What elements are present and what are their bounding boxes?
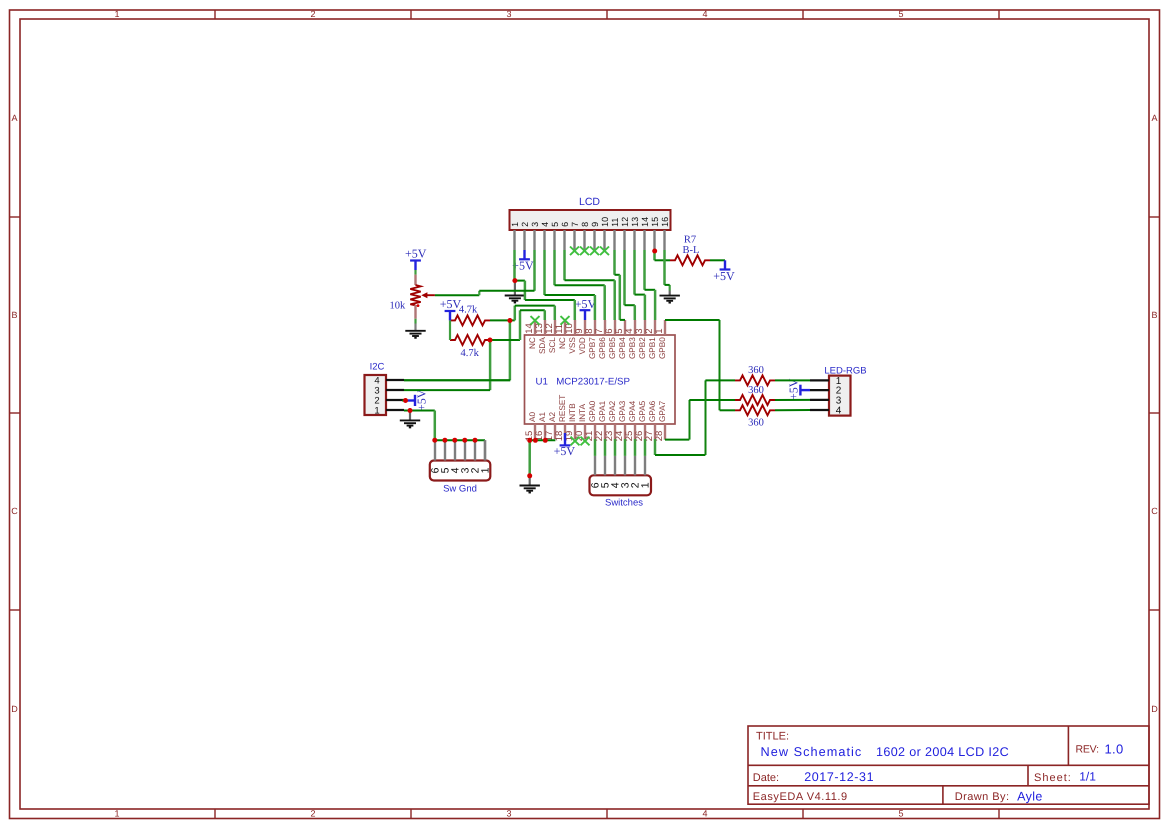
svg-text:10k: 10k — [390, 300, 407, 311]
power +5V R7 — [724, 260, 726, 269]
svg-text:B: B — [1151, 310, 1157, 320]
svg-text:GPB1: GPB1 — [648, 337, 657, 359]
svg-text:New Schematic: New Schematic — [761, 745, 863, 759]
svg-text:GPA4: GPA4 — [628, 400, 637, 422]
svg-text:C: C — [1151, 506, 1158, 516]
wire 360 bottom to LED4 — [775, 409, 810, 411]
svg-text:Switches: Switches — [605, 498, 643, 509]
power +5V U1 RESET — [564, 433, 566, 445]
svg-text:GPA7: GPA7 — [658, 400, 667, 422]
wire LCD11 to GPB4 — [613, 250, 616, 275]
title block — [748, 726, 1149, 804]
op IC U1 MCP23017-E/SP body — [525, 335, 676, 424]
svg-text:1602 or 2004 LCD I2C: 1602 or 2004 LCD I2C — [876, 745, 1009, 759]
resistor 4.7k bottom — [450, 335, 490, 345]
svg-text:+5V: +5V — [414, 389, 428, 411]
wire SDA net — [490, 339, 520, 341]
svg-text:GPA5: GPA5 — [638, 400, 647, 422]
wire LCD5 to GPB6 — [553, 250, 556, 285]
svg-text:11: 11 — [610, 218, 620, 227]
wire GPA6 to 360 top — [654, 439, 657, 455]
svg-text:+5V: +5V — [440, 297, 462, 311]
node I2C pin1 — [408, 408, 413, 413]
wire SCL net — [490, 319, 515, 321]
power +5V U1 VDD — [584, 310, 586, 320]
svg-text:C: C — [11, 506, 18, 516]
svg-text:1: 1 — [654, 329, 665, 334]
svg-text:360: 360 — [748, 417, 764, 428]
svg-text:GPB0: GPB0 — [658, 337, 667, 359]
svg-text:2: 2 — [310, 9, 315, 19]
svg-text:D: D — [11, 704, 18, 714]
svg-text:Sw Gnd: Sw Gnd — [443, 484, 477, 495]
svg-text:GPB3: GPB3 — [628, 337, 637, 359]
svg-text:GPB4: GPB4 — [618, 337, 627, 359]
svg-text:4: 4 — [540, 222, 550, 227]
U1 bottom pins — [534, 424, 536, 439]
node SDA junction — [488, 338, 493, 343]
svg-text:4.7k: 4.7k — [461, 348, 480, 359]
wire I2C pin1 gnd net — [404, 410, 435, 412]
wire LCD16 to GND — [663, 250, 666, 285]
wire I2C pin2 to +5V — [402, 400, 406, 402]
wire LCD12 to GPB3 — [623, 250, 626, 305]
resistor R7 B-L — [670, 255, 710, 265]
svg-text:U1: U1 — [536, 376, 548, 387]
node LCD15 junction — [652, 249, 657, 254]
svg-text:2: 2 — [520, 222, 530, 227]
node SCL junction — [507, 318, 512, 323]
Switches pins — [594, 456, 596, 475]
svg-text:GPA0: GPA0 — [588, 400, 597, 422]
svg-text:+5V: +5V — [575, 297, 597, 311]
power +5V 4.7k — [449, 311, 451, 320]
svg-text:RESET: RESET — [558, 395, 567, 422]
ground LCD pin16 — [669, 285, 671, 291]
resistor R 10k potentiometer — [414, 270, 416, 275]
svg-text:I2C: I2C — [370, 362, 385, 373]
svg-text:4: 4 — [836, 405, 842, 416]
svg-text:VDD: VDD — [578, 337, 587, 354]
svg-text:INTA: INTA — [578, 403, 587, 422]
Sw Gnd pins — [434, 440, 436, 460]
wire LCD3 to pot wiper — [533, 250, 536, 291]
svg-text:GPB7: GPB7 — [588, 337, 597, 359]
svg-text:1.0: 1.0 — [1105, 741, 1124, 756]
no-connect X LCD pins 7-10 — [570, 247, 579, 256]
svg-text:D: D — [1151, 704, 1158, 714]
svg-text:INTB: INTB — [568, 403, 577, 422]
svg-text:GPA3: GPA3 — [618, 400, 627, 422]
svg-text:2: 2 — [310, 809, 315, 819]
wire 360 top to LED1 — [775, 379, 810, 381]
svg-text:1: 1 — [640, 482, 652, 488]
svg-text:1: 1 — [480, 467, 492, 473]
ground U1 A0A1A2 — [529, 476, 531, 486]
U1 top pins — [534, 320, 536, 335]
wire 360 middle to LED3 — [775, 399, 810, 401]
svg-text:A0: A0 — [528, 412, 537, 422]
svg-text:B: B — [11, 310, 17, 320]
svg-text:360: 360 — [748, 385, 764, 396]
svg-text:LED-RGB: LED-RGB — [824, 366, 866, 377]
wire U1 A0A1A2 to GND — [530, 439, 556, 441]
svg-text:B-L: B-L — [683, 245, 700, 256]
svg-text:13: 13 — [630, 217, 640, 227]
svg-text:Drawn By:: Drawn By: — [955, 791, 1010, 803]
svg-text:1/1: 1/1 — [1079, 770, 1096, 784]
wire LCD15 to R7 — [653, 250, 656, 260]
svg-text:4: 4 — [702, 809, 707, 819]
pot wiper arrow — [427, 294, 435, 296]
nodes A0 A1 A2 — [527, 438, 532, 443]
svg-text:3: 3 — [506, 809, 511, 819]
power +5V pot — [414, 261, 416, 271]
svg-text:LCD: LCD — [579, 196, 600, 208]
nodes Sw Gnd row — [432, 438, 437, 443]
svg-text:A: A — [11, 113, 17, 123]
wire I2C pin3 horizontal — [404, 379, 510, 381]
svg-text:1: 1 — [114, 9, 119, 19]
svg-text:R7: R7 — [684, 235, 696, 246]
svg-text:5: 5 — [898, 809, 903, 819]
connector LED-RGB (4-pin) — [829, 376, 851, 416]
connector Switches (6-pin) — [590, 475, 652, 495]
svg-text:10: 10 — [600, 217, 610, 227]
wire LCD1 to GND and VSS — [513, 250, 516, 281]
svg-text:SDA: SDA — [538, 337, 547, 354]
svg-text:14: 14 — [640, 217, 650, 227]
wire LCD4 to GPB7 — [543, 250, 546, 295]
svg-text:REV:: REV: — [1076, 743, 1099, 755]
svg-text:GPB6: GPB6 — [598, 337, 607, 359]
svg-text:+5V: +5V — [554, 444, 576, 458]
connector LCD (16-pin header) — [510, 210, 671, 230]
wire GPB0 to 360 bottom — [665, 319, 720, 321]
no-connect X U1 pin20 — [581, 437, 590, 446]
I2C pins — [386, 379, 404, 381]
svg-text:GPB5: GPB5 — [608, 337, 617, 359]
svg-text:12: 12 — [620, 217, 630, 227]
power +5V I2C pin2 — [406, 399, 416, 401]
resistor 360 top — [735, 375, 775, 385]
svg-text:Sheet:: Sheet: — [1034, 772, 1072, 784]
svg-text:3: 3 — [530, 222, 540, 227]
svg-text:9: 9 — [590, 222, 600, 227]
svg-text:TITLE:: TITLE: — [756, 730, 789, 742]
node I2C pin2 — [403, 398, 408, 403]
resistor 4.7k top — [450, 315, 490, 325]
power +5V LED-RGB pin2 — [800, 389, 810, 391]
wire LCD6 to GPB5 — [563, 250, 566, 280]
svg-text:GPA6: GPA6 — [648, 400, 657, 422]
svg-text:VSS: VSS — [568, 337, 577, 354]
svg-text:MCP23017-E/SP: MCP23017-E/SP — [556, 376, 630, 387]
svg-text:+5V: +5V — [713, 269, 735, 283]
svg-text:6: 6 — [560, 222, 570, 227]
svg-text:+5V: +5V — [405, 246, 427, 260]
svg-text:360: 360 — [748, 365, 764, 376]
svg-text:GPA2: GPA2 — [608, 400, 617, 422]
svg-text:7: 7 — [570, 222, 580, 227]
svg-text:1: 1 — [374, 405, 379, 416]
svg-text:EasyEDA V4.11.9: EasyEDA V4.11.9 — [753, 791, 848, 803]
svg-text:15: 15 — [650, 217, 660, 227]
wire LCD13 to GPB2 — [633, 250, 636, 295]
LCD pins 1-16 — [513, 230, 515, 250]
svg-text:Ayle: Ayle — [1017, 790, 1043, 804]
svg-text:4.7k: 4.7k — [459, 304, 478, 315]
svg-text:+5V: +5V — [787, 378, 801, 400]
svg-text:Date:: Date: — [753, 772, 779, 784]
no-connect X U1 pin14 — [531, 316, 540, 325]
connector Sw Gnd (6-pin) — [430, 461, 491, 481]
node LCD1 junction — [512, 278, 517, 283]
wire 4.7k left join — [449, 320, 451, 340]
svg-text:SCL: SCL — [548, 337, 557, 353]
connector I2C (4-pin) — [365, 375, 387, 415]
svg-text:8: 8 — [580, 222, 590, 227]
resistor 360 bottom — [735, 405, 775, 415]
svg-text:4: 4 — [702, 9, 707, 19]
wires GPA0-GPA5 to Switches — [594, 439, 597, 456]
svg-text:NC: NC — [558, 337, 567, 349]
svg-text:16: 16 — [660, 217, 670, 227]
wire GPA7 to 360 middle — [664, 438, 667, 441]
svg-text:3: 3 — [506, 9, 511, 19]
ground pot — [414, 319, 416, 324]
ground I2C pin1 — [409, 411, 411, 421]
resistor 360 middle — [735, 395, 775, 405]
LED-RGB pins — [810, 379, 829, 381]
svg-text:GPA1: GPA1 — [598, 400, 607, 422]
svg-text:1: 1 — [510, 222, 520, 227]
svg-text:5: 5 — [898, 9, 903, 19]
no-connect X U1 pin11 — [561, 316, 570, 325]
svg-text:GPB2: GPB2 — [638, 337, 647, 359]
power +5V LCD pin2 — [523, 250, 525, 259]
svg-text:1: 1 — [114, 809, 119, 819]
svg-text:5: 5 — [550, 222, 560, 227]
wire R7 right — [710, 259, 725, 261]
svg-text:A: A — [1151, 113, 1157, 123]
svg-text:A2: A2 — [548, 412, 557, 422]
svg-text:A1: A1 — [538, 412, 547, 422]
svg-text:2017-12-31: 2017-12-31 — [804, 770, 874, 784]
no-connect X U1 pin19 — [571, 437, 580, 446]
svg-text:NC: NC — [528, 337, 537, 349]
ground LCD pin1 — [514, 281, 516, 296]
wire LCD14 to GPB1 — [643, 250, 646, 290]
